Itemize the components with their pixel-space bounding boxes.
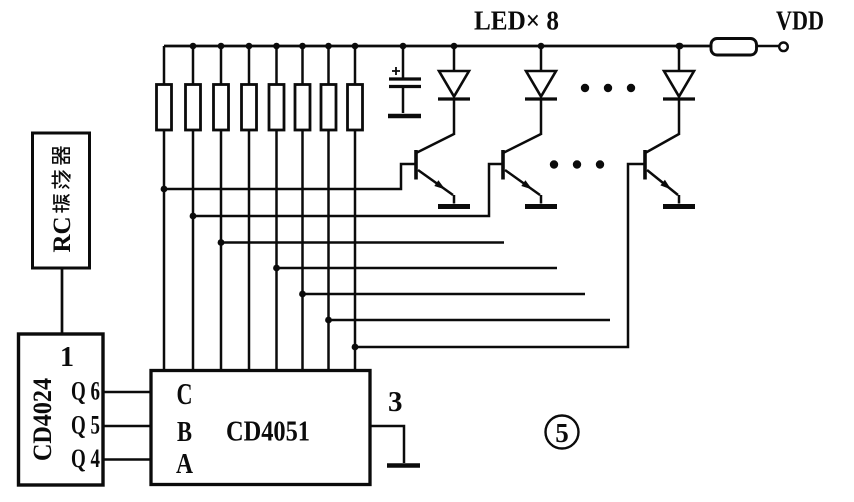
svg-text:A: A: [176, 448, 193, 480]
op-amp U1 CD4024 counter: [19, 334, 104, 485]
transistor Q2: [503, 134, 541, 204]
resistor R1: [157, 46, 172, 130]
resistor R2: [186, 46, 201, 130]
node bus-D1 junction: [451, 43, 458, 50]
node bus-D8 junction: [676, 43, 683, 50]
node bus-R7 junction: [325, 43, 332, 50]
node channel 3 tap junction: [218, 239, 225, 246]
capacitor C1: [389, 46, 421, 113]
resistor R7: [321, 46, 336, 130]
wire top VDD bus: [164, 45, 711, 48]
node channel 8 tap junction: [352, 344, 359, 351]
wire T2 base line: [193, 164, 503, 216]
wire channel 1 vertical: [163, 130, 166, 371]
node channel 7 tap junction: [325, 317, 332, 324]
svg-text:5: 5: [555, 418, 569, 448]
node bus-C1 junction: [400, 43, 407, 50]
LED D1: [438, 46, 470, 135]
wire Q4 to A: [103, 458, 151, 461]
node bus-R6 junction: [299, 43, 306, 50]
node figure number 5: [546, 416, 579, 449]
wire RC osc to CD4024: [61, 268, 64, 334]
svg-text:CD4024: CD4024: [28, 378, 57, 461]
wire channel6 out line: [303, 293, 586, 296]
wire pin3 to ground: [370, 426, 404, 463]
node channel 6 tap junction: [299, 291, 306, 298]
wire channel7 out line: [329, 319, 611, 322]
node bus-R9 junction: [677, 43, 684, 50]
svg-text:Q 5: Q 5: [71, 411, 100, 440]
wire channel 2 vertical: [192, 130, 195, 371]
svg-text:RC: RC: [49, 216, 76, 252]
wire channel 8 vertical: [354, 130, 357, 371]
node bus-R2 junction: [190, 43, 197, 50]
wire channel5 out line: [277, 267, 558, 270]
resistor R9 (VDD series): [711, 39, 757, 56]
svg-text:3: 3: [388, 386, 403, 418]
op-amp U2 CD4051 multiplexer: [151, 371, 370, 485]
LED D8: [663, 46, 695, 135]
resistor R3: [214, 46, 229, 130]
wire Q6 to C: [103, 391, 151, 394]
svg-text:Q 6: Q 6: [71, 377, 100, 406]
value label RC oscillator (vertical): [49, 147, 76, 253]
resistor R6: [295, 46, 310, 130]
svg-text:Q 4: Q 4: [71, 444, 100, 473]
resistor R8: [348, 46, 363, 130]
node ellipsis dots (LED row): [581, 84, 635, 92]
node bus-R5 junction: [273, 43, 280, 50]
wire channel 6 vertical: [301, 130, 304, 371]
ground (pin 3): [387, 463, 420, 468]
ground (Q2 emitter): [525, 204, 557, 209]
node channel 2 tap junction: [190, 213, 197, 220]
svg-text:CD4051: CD4051: [226, 417, 310, 448]
resistor R4: [242, 46, 257, 130]
node VDD open terminal: [779, 43, 788, 52]
wire channel 5 vertical: [275, 130, 278, 371]
node channel 5 tap junction: [273, 265, 280, 272]
wire channel 3 vertical: [220, 130, 223, 371]
svg-text:C: C: [177, 376, 193, 411]
node bus-R3 junction: [218, 43, 225, 50]
wire T1 base line: [164, 164, 416, 189]
RC oscillator block: [33, 133, 90, 268]
wire channel 7 vertical: [327, 130, 330, 371]
node bus-R4 junction: [246, 43, 253, 50]
node bus-R8 junction: [352, 43, 359, 50]
resistor R5: [269, 46, 284, 130]
LED D2: [525, 46, 557, 135]
svg-text:VDD: VDD: [776, 6, 824, 36]
wire T3 base line: [355, 164, 645, 347]
wire channel 4 vertical: [248, 130, 251, 371]
svg-text:B: B: [177, 416, 192, 448]
wire to VDD terminal: [757, 45, 780, 48]
node ellipsis dots (transistor row): [550, 160, 604, 168]
wire Q5 to B: [103, 425, 151, 428]
transistor Q8: [645, 134, 679, 204]
ground (Q8 emitter): [663, 204, 695, 209]
node bus-D2 junction: [538, 43, 545, 50]
ground (C1): [388, 114, 421, 119]
transistor Q1: [416, 134, 454, 204]
wire channel3 out line: [221, 241, 504, 244]
svg-text:1: 1: [60, 342, 74, 373]
svg-text:LED× 8: LED× 8: [474, 6, 559, 36]
ground (Q1 emitter): [438, 204, 470, 209]
node channel 1 tap junction: [161, 186, 168, 193]
